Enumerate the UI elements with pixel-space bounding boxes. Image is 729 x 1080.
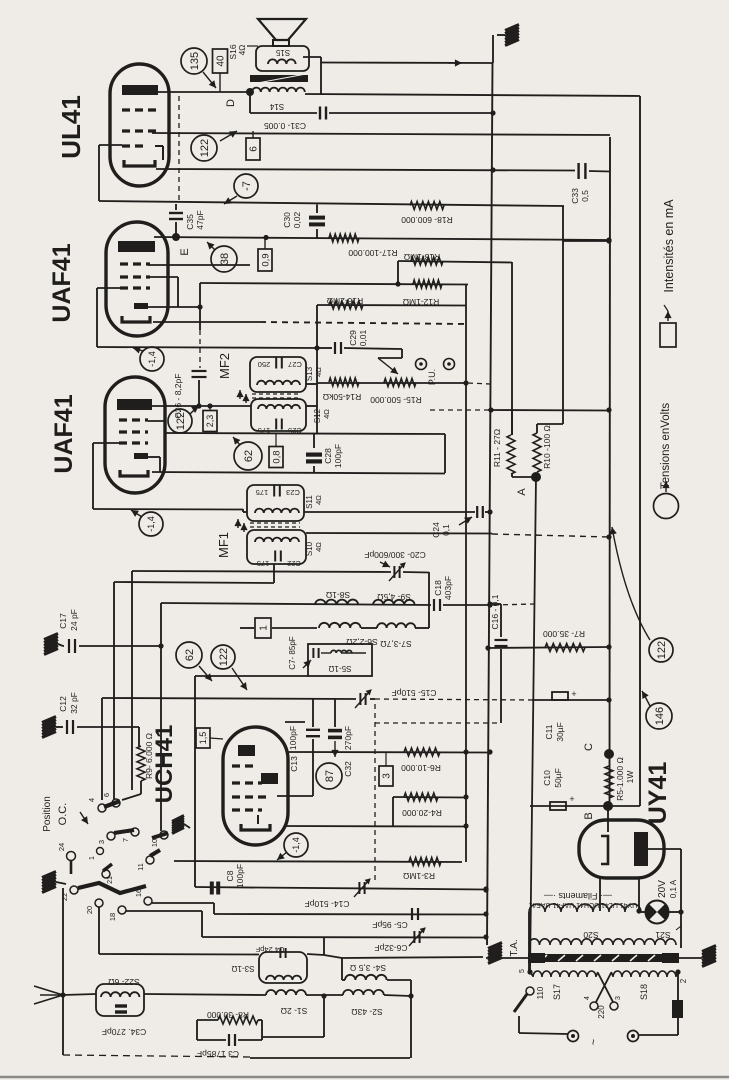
capacitor C4 24pF [255, 945, 285, 958]
capacitor C8 100pF [212, 864, 245, 895]
capacitor C32 270pF [328, 699, 353, 777]
capacitor C28 100pF [306, 444, 343, 468]
svg-text:1W: 1W [625, 771, 635, 784]
svg-text:C30: C30 [282, 212, 292, 228]
svg-text:S8-1Ω: S8-1Ω [326, 590, 350, 600]
svg-text:110: 110 [536, 986, 545, 999]
contact 22 [60, 886, 78, 901]
node B [583, 801, 613, 820]
main mid vertical [463, 284, 468, 862]
svg-text:C22: C22 [287, 559, 301, 568]
switch contact 110 [519, 969, 545, 999]
transformer core [528, 953, 679, 963]
svg-text:175: 175 [257, 559, 270, 568]
resistor R4 20k [393, 793, 469, 826]
wire UL41 g1 line [99, 145, 564, 206]
svg-text:UCH41: UCH41 [151, 725, 178, 804]
label UAF41 first [48, 243, 76, 322]
svg-text:~: ~ [588, 1039, 600, 1045]
coil box S22 [96, 977, 144, 1016]
UL41 grid dashes [99, 110, 158, 146]
svg-text:-1,4: -1,4 [147, 351, 157, 367]
label UAF41 second [50, 394, 78, 473]
speaker cone [258, 19, 306, 46]
node D [225, 88, 254, 107]
UAF41a grid dashes [120, 264, 150, 288]
wire UAF41b cathode line [152, 472, 445, 474]
coil S1 2Ω [266, 990, 307, 1016]
Position OC label [42, 796, 88, 832]
wire MF2 anode line [151, 403, 251, 408]
svg-text:0,9: 0,9 [260, 253, 271, 266]
svg-text:R4-20.000: R4-20.000 [402, 808, 442, 818]
svg-text:S11: S11 [305, 495, 314, 509]
svg-text:R6-10.000: R6-10.000 [401, 763, 441, 773]
svg-text:S22- 6Ω: S22- 6Ω [108, 977, 139, 987]
wire C8 line [195, 886, 489, 891]
coil S6 2,2Ω [319, 623, 378, 647]
svg-text:S18: S18 [639, 984, 649, 1000]
wire MF1 sec bottom [114, 564, 274, 799]
svg-text:C27: C27 [288, 360, 302, 369]
wire R13 left leg [395, 261, 400, 287]
ground top [493, 25, 519, 64]
pilot lamp [641, 901, 681, 924]
contact 24 [57, 843, 76, 874]
svg-text:C5- 95pF: C5- 95pF [372, 920, 407, 930]
svg-text:4Ω: 4Ω [314, 495, 323, 505]
svg-text:C34. 270pF: C34. 270pF [102, 1027, 146, 1037]
svg-text:24 pF: 24 pF [69, 609, 79, 631]
svg-text:O.C.: O.C. [57, 803, 69, 826]
wire UAF41a cathode line [153, 322, 466, 324]
contact 21 [102, 870, 114, 884]
rotor blade c [152, 833, 168, 838]
svg-text:P.U.: P.U. [427, 369, 437, 385]
resistor R6 10k [401, 748, 441, 773]
right outer rail [639, 96, 641, 806]
oscillator box S5 [308, 644, 372, 676]
svg-text:C24: C24 [431, 522, 441, 538]
svg-text:R10 -100 Ω: R10 -100 Ω [542, 425, 552, 469]
svg-text:S2- 43Ω: S2- 43Ω [351, 1007, 382, 1017]
UCH41 grid dashes [232, 766, 268, 810]
mains switch blade [514, 994, 568, 1034]
output transformer core [250, 74, 308, 84]
svg-text:C8: C8 [225, 870, 235, 881]
svg-text:2,3: 2,3 [205, 415, 215, 428]
capacitor C29 0,01 [335, 329, 368, 354]
svg-text:C14- 510pF: C14- 510pF [305, 899, 350, 909]
svg-text:122: 122 [218, 648, 230, 666]
svg-text:5: 5 [519, 969, 526, 973]
box 0,8 meter [269, 434, 283, 468]
label MF1 [216, 532, 231, 558]
dashed heater line [375, 722, 501, 724]
PU jacks [416, 359, 455, 386]
svg-text:C17: C17 [58, 613, 68, 629]
svg-text:18: 18 [108, 913, 117, 921]
wire padder line C20 [132, 571, 429, 790]
vertical tuning stem [160, 603, 162, 831]
capacitor C3 1785pF [197, 1034, 262, 1059]
svg-text:R17-100.000: R17-100.000 [348, 248, 397, 258]
box 0.9 meter [258, 238, 272, 271]
wire C29 to volume arrow [378, 349, 402, 374]
wire UAF41a g3 stub [148, 277, 178, 307]
wire C11 line [532, 697, 612, 702]
UL41 tube [110, 64, 169, 186]
svg-text:3: 3 [615, 996, 622, 1000]
resistor R11 27 [492, 410, 534, 477]
rotor blade e [78, 883, 146, 893]
ground core right [679, 946, 716, 967]
circle 62 osc [176, 642, 212, 681]
svg-text:122: 122 [175, 412, 187, 430]
svg-text:C3 1785pF: C3 1785pF [197, 1049, 239, 1059]
antenna ground vertical [62, 888, 64, 1055]
speaker coil S15 box [256, 46, 309, 71]
legend Intensites en mA [662, 199, 676, 293]
capacitor C11 30uF [544, 689, 577, 742]
capacitor C5 95pF [372, 908, 418, 930]
fuse [672, 972, 688, 1035]
svg-text:6: 6 [249, 146, 260, 152]
svg-text:R15- 500.000: R15- 500.000 [370, 395, 422, 405]
capacitor C31 [264, 107, 326, 132]
MF2 primary coil [257, 381, 300, 385]
AGC vertical link [199, 283, 201, 368]
capacitor C16 0,1 [487, 594, 507, 723]
label 20V 0,1A [657, 879, 678, 898]
wire osc grid to C13 [285, 721, 305, 723]
svg-text:MF2: MF2 [217, 353, 232, 379]
label S11 [305, 495, 323, 509]
svg-text:S10: S10 [305, 541, 314, 556]
circle 62 MF2 [233, 437, 262, 470]
svg-text:0,8: 0,8 [271, 450, 282, 463]
svg-text:R7- 35.000: R7- 35.000 [543, 629, 585, 639]
capacitor C27 [258, 358, 302, 370]
resistor R16 2M [317, 296, 466, 348]
circle 135 [181, 48, 216, 88]
capacitor C23 [256, 486, 300, 498]
svg-text:0,1 A: 0,1 A [669, 879, 678, 898]
wire R10 top feed [537, 241, 563, 424]
label tube lineup [529, 901, 638, 908]
wire R7 line [485, 644, 611, 650]
svg-text:47pF: 47pF [195, 210, 205, 229]
svg-text:S3-1Ω: S3-1Ω [232, 964, 255, 973]
wire anode UL41 to D [157, 91, 252, 93]
MF1 primary box [247, 485, 304, 521]
svg-text:21: 21 [107, 876, 114, 884]
svg-text:R5-1.000 Ω: R5-1.000 Ω [615, 757, 625, 801]
dashed vertical to C14 [374, 704, 376, 882]
ground C17 [44, 634, 64, 655]
svg-text:B: B [583, 812, 595, 819]
capacitor C34 270pF [102, 1006, 146, 1037]
wire antenna row [144, 994, 411, 996]
svg-text:R18- 600.000: R18- 600.000 [401, 215, 453, 225]
rotor blade b [114, 830, 134, 833]
label S10 [305, 541, 323, 556]
circle -1,4 third [277, 833, 308, 860]
coil S4 3,5Ω [342, 958, 411, 980]
svg-text:4Ω: 4Ω [238, 45, 247, 55]
UAF41b anode [117, 399, 152, 410]
trimmer C6 32pF [374, 928, 425, 953]
svg-text:250: 250 [258, 360, 271, 369]
svg-text:-1,4: -1,4 [291, 837, 301, 853]
svg-text:C20- 300/600pF: C20- 300/600pF [364, 550, 425, 560]
resistor R8 30k [197, 1010, 262, 1024]
svg-text:C28: C28 [323, 448, 333, 464]
svg-text:S17: S17 [552, 984, 562, 1000]
resistor R5 1000 [605, 757, 635, 801]
svg-text:C10: C10 [542, 770, 552, 786]
UAF41a anode [118, 241, 155, 252]
capacitor C26 8.2pF [173, 371, 207, 418]
coil S14 [252, 88, 305, 111]
coil S3 [266, 976, 301, 980]
MF1 secondary coil [255, 538, 299, 542]
svg-text:30µF: 30µF [555, 722, 565, 742]
circle 122 UL41 screen [191, 131, 237, 161]
UCH41 triode anode [238, 745, 255, 756]
wire S14 to right rail [305, 94, 640, 96]
svg-text:C4 24pF: C4 24pF [255, 945, 284, 954]
legend box symbol [660, 305, 676, 347]
coil box S3 [232, 952, 307, 983]
wire cathode line UCH [284, 823, 469, 828]
svg-text:UY41: UY41 [644, 762, 672, 825]
wire UAF41a g1 wrap [97, 288, 120, 347]
legend Tensions en Volts [660, 403, 672, 490]
MF1 primary coil [255, 509, 299, 513]
svg-text:MF1: MF1 [216, 532, 231, 558]
svg-text:62: 62 [243, 450, 255, 462]
heater chain [529, 904, 641, 972]
svg-text:C12: C12 [58, 696, 68, 712]
circle 87 [316, 763, 342, 789]
UAF41a diode plate [134, 303, 148, 309]
svg-text:+: + [571, 689, 576, 699]
wire UAF41b diode stub [148, 457, 160, 472]
svg-text:C13: C13 [289, 756, 299, 772]
node A [516, 472, 541, 496]
transformer primary winding [529, 912, 681, 945]
svg-text:T.A.: T.A. [509, 939, 520, 956]
R8 C3 joins [197, 993, 327, 1040]
svg-text:62: 62 [184, 649, 196, 661]
circle 122 osc [211, 645, 247, 690]
svg-text:UAF41: UAF41 [48, 243, 76, 322]
UAF41a cathode [122, 316, 150, 322]
wire UL41 cathode line [156, 167, 610, 172]
svg-text:C31- 0.005: C31- 0.005 [264, 121, 306, 131]
wire MF1 primary to rail [304, 509, 493, 514]
svg-text:D: D [225, 99, 237, 107]
wire right bend 445 [444, 434, 446, 473]
resistor R18 600k [401, 202, 453, 226]
svg-text:22: 22 [60, 893, 69, 901]
svg-text:S1- 2Ω: S1- 2Ω [281, 1006, 308, 1016]
svg-text:S4- 3,5 Ω: S4- 3,5 Ω [350, 963, 386, 973]
svg-text:Intensités en mA: Intensités en mA [662, 199, 676, 293]
wire 410 line [430, 407, 612, 412]
rotor blade f [103, 864, 112, 871]
wire UL41 g2 line [152, 133, 610, 135]
node E [172, 233, 191, 256]
trimmer C20 [364, 550, 425, 581]
svg-text:S5-1Ω: S5-1Ω [329, 664, 352, 673]
mains plug pins [568, 1031, 679, 1046]
svg-text:0,01: 0,01 [358, 329, 368, 346]
MF2 coupling [236, 390, 300, 403]
wire UAF41b g2 line [148, 421, 445, 434]
wire C17 line [79, 643, 164, 648]
capacitor C24 0,1 [431, 506, 483, 538]
legend circle symbol [654, 481, 679, 519]
svg-text:S14: S14 [269, 102, 284, 111]
circle -1,4 first [133, 347, 164, 371]
circle 122 MF2 [168, 406, 199, 433]
svg-text:146: 146 [654, 707, 666, 725]
svg-text:1: 1 [259, 625, 270, 631]
svg-text:1: 1 [89, 856, 96, 860]
svg-text:+: + [569, 794, 574, 804]
resistor R3 1M [403, 858, 441, 882]
wire hexode anode line [288, 749, 493, 754]
svg-text:S9- 4,5Ω: S9- 4,5Ω [377, 592, 411, 602]
resistor R10 100 [533, 424, 552, 472]
svg-text:C33: C33 [570, 188, 580, 204]
wire R18 to inner rail [563, 206, 612, 244]
coil S2 43Ω [343, 990, 384, 1017]
svg-text:-1,4: -1,4 [146, 516, 156, 532]
box 6 meter [246, 131, 260, 160]
capacitor C18 403pF [433, 576, 453, 611]
R13 right vertical [511, 262, 513, 435]
label MF2 [217, 353, 232, 379]
mains voltage crossover [584, 973, 622, 1019]
wire MF1 secondary to rail [306, 533, 612, 540]
svg-text:E: E [179, 248, 191, 255]
wire UY41 anode [648, 849, 684, 948]
svg-text:4: 4 [584, 996, 591, 1000]
trimmer C15 510pF [355, 688, 436, 708]
capacitor C12 32pF [58, 692, 79, 734]
MF2 primary box [250, 357, 306, 392]
svg-text:A: A [516, 488, 528, 496]
svg-text:Position: Position [42, 796, 53, 832]
svg-text:270pF: 270pF [343, 726, 353, 750]
circle 146 [642, 691, 672, 729]
svg-text:Tensions enVolts: Tensions enVolts [660, 403, 672, 490]
resistor R15 500k [370, 379, 422, 406]
resistor R17 100k [329, 234, 398, 258]
svg-text:S7-3,7Ω: S7-3,7Ω [380, 639, 411, 649]
resistor R14 50k [323, 378, 361, 402]
rotor blade d [150, 850, 160, 856]
label UY41 [644, 762, 672, 825]
coil S5 1Ω [321, 650, 366, 673]
wire volume line [317, 383, 490, 384]
UCH41 tube [223, 727, 288, 845]
MF1 secondary box [247, 530, 306, 564]
svg-text:C29: C29 [348, 330, 358, 346]
svg-text:3: 3 [382, 773, 393, 779]
svg-text:220: 220 [597, 1005, 606, 1019]
svg-text:2: 2 [679, 978, 688, 983]
coil S22 [101, 992, 139, 997]
svg-text:40: 40 [216, 55, 227, 67]
svg-text:S16: S16 [228, 44, 238, 59]
capacitor C13 100pF [288, 699, 320, 796]
circle -7 [224, 174, 258, 204]
wire B line [530, 805, 640, 807]
svg-text:C32: C32 [343, 761, 353, 777]
wire g1 line UCH [174, 861, 462, 862]
contact 7 [121, 828, 139, 842]
coil S8 1Ω [315, 590, 358, 605]
svg-text:C18: C18 [433, 580, 443, 596]
svg-text:11: 11 [136, 863, 145, 871]
svg-text:0,5: 0,5 [580, 190, 590, 202]
B+ rail vertical [487, 63, 493, 945]
svg-text:R13-1MΩ: R13-1MΩ [404, 252, 441, 262]
svg-text:100pF: 100pF [235, 864, 245, 888]
svg-text:3: 3 [97, 840, 106, 844]
antenna [34, 986, 96, 1004]
wire C12 line [77, 727, 139, 746]
svg-text:4Ω: 4Ω [322, 409, 331, 419]
svg-text:C6-32pF: C6-32pF [374, 943, 407, 953]
svg-text:175: 175 [256, 488, 269, 497]
UAF41b cathode [120, 470, 148, 476]
wire MF1 feed [243, 509, 247, 512]
svg-text:100pF: 100pF [333, 444, 343, 468]
svg-text:C26 - 8,2pF: C26 - 8,2pF [173, 374, 183, 419]
svg-text:R16-2MΩ: R16-2MΩ [327, 296, 364, 306]
svg-text:38: 38 [219, 253, 231, 265]
svg-text:—· Filaments ·—: —· Filaments ·— [544, 891, 612, 901]
wire UAF41a diode line [148, 304, 203, 309]
svg-text:S15: S15 [275, 48, 290, 57]
svg-text:20V: 20V [657, 880, 668, 898]
UCH41 cathode [241, 815, 270, 830]
contact 11 [136, 856, 154, 871]
svg-text:122: 122 [199, 139, 211, 157]
svg-text:7: 7 [121, 838, 130, 842]
wire C31 line [250, 92, 496, 116]
wire osc row S6 S7 [240, 627, 429, 629]
svg-text:24: 24 [57, 843, 66, 851]
svg-text:R3-1MΩ: R3-1MΩ [403, 871, 435, 881]
A line vertical [530, 477, 536, 972]
page edge line [0, 1076, 729, 1078]
capacitor C25 [258, 419, 302, 436]
svg-text:C7- 85pF: C7- 85pF [288, 636, 297, 669]
ground core left [486, 943, 528, 964]
ground C12 [42, 717, 63, 738]
UL41 cathode [124, 146, 163, 166]
svg-text:S6-2,2Ω: S6-2,2Ω [346, 637, 377, 647]
capacitor C7 85pF [288, 636, 319, 669]
svg-text:UAF41: UAF41 [50, 394, 78, 473]
svg-text:4Ω: 4Ω [314, 367, 323, 377]
